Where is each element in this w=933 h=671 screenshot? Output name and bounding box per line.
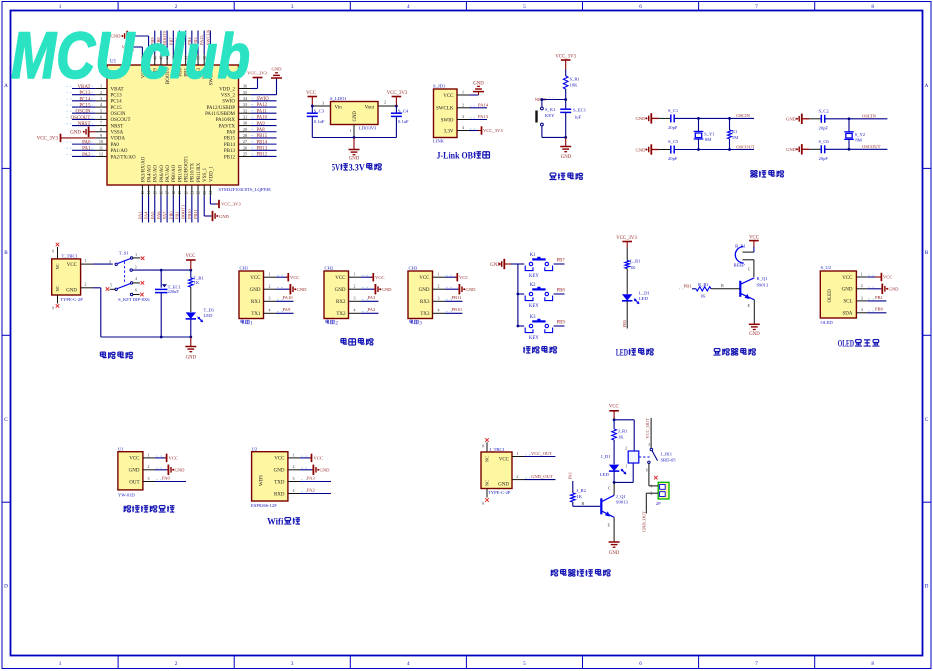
- svg-text:Wifi: Wifi: [267, 517, 284, 528]
- mask dashes: [301, 467, 303, 469]
- wire: [572, 502, 574, 506]
- wire: [525, 456, 556, 458]
- svg-text:VCC: VCC: [459, 275, 468, 280]
- mask dashes: [526, 477, 527, 479]
- svg-text:4: 4: [269, 308, 271, 313]
- wire: [72, 149, 95, 151]
- wire CH3 pin 2: [433, 288, 446, 290]
- svg-text:SWCLK: SWCLK: [436, 107, 454, 112]
- svg-text:TX2: TX2: [336, 312, 346, 317]
- svg-text:1: 1: [135, 253, 137, 257]
- mask dashes: [868, 310, 870, 312]
- svg-text:1: 1: [85, 258, 87, 263]
- wire: [674, 149, 754, 151]
- svg-text:VCC: VCC: [306, 91, 316, 96]
- svg-text:6: 6: [135, 289, 137, 293]
- svg-text:PA12/USBDP: PA12/USBDP: [207, 106, 236, 111]
- svg-text:OSCOUT: OSCOUT: [70, 116, 90, 121]
- wire: [848, 140, 850, 150]
- svg-text:5: 5: [523, 4, 526, 10]
- capacitor S_C5 20pF: [659, 149, 671, 151]
- svg-text:VCC_3V3: VCC_3V3: [37, 137, 59, 142]
- title liquid level module: [124, 506, 131, 512]
- svg-text:PB5: PB5: [622, 319, 627, 327]
- wire LDO bottom rail: [312, 137, 396, 139]
- wire: [470, 107, 488, 109]
- svg-text:GND: GND: [842, 288, 853, 293]
- svg-text:GND: GND: [129, 469, 140, 474]
- wire ESP8266 pin 2: [288, 469, 300, 471]
- wire: [613, 471, 615, 482]
- wire: [72, 155, 95, 157]
- wire: [155, 481, 186, 483]
- svg-text:VCC_OUT: VCC_OUT: [531, 451, 552, 456]
- wire CH1 pin 4: [264, 312, 277, 314]
- wire: [395, 116, 397, 137]
- svg-text:A: A: [4, 83, 8, 89]
- svg-text:7: 7: [100, 121, 102, 126]
- junction: [517, 325, 520, 328]
- wire: [251, 125, 277, 127]
- wire: [197, 31, 199, 55]
- svg-text:OSCIN: OSCIN: [736, 113, 750, 118]
- wire: [511, 263, 518, 265]
- wire: [93, 287, 101, 289]
- svg-text:GND: GND: [320, 468, 331, 473]
- svg-text:PA4/AO: PA4/AO: [147, 165, 152, 182]
- svg-text:NC: NC: [55, 285, 60, 291]
- capacitor S_C1 20pF: [659, 117, 671, 119]
- wire CH2 pin 3: [349, 300, 362, 302]
- mask dashes: [252, 122, 254, 124]
- svg-text:PB2/BOOT1: PB2/BOOT1: [185, 155, 190, 182]
- junction: [613, 418, 616, 421]
- svg-text:PC15: PC15: [79, 103, 91, 108]
- wire: [573, 505, 600, 507]
- svg-text:D: D: [4, 584, 8, 590]
- svg-text:VSS_2: VSS_2: [221, 93, 236, 98]
- svg-text:TX3: TX3: [420, 312, 430, 317]
- wire: [160, 293, 162, 337]
- svg-text:PA2: PA2: [307, 487, 315, 492]
- wire: [445, 300, 463, 302]
- wire LDO gnd pin: [353, 125, 355, 138]
- svg-text:VDD_1: VDD_1: [209, 166, 214, 182]
- svg-text:PB13: PB13: [257, 147, 268, 152]
- svg-text:6: 6: [639, 4, 642, 10]
- svg-text:VCC: VCC: [314, 456, 323, 461]
- MCUclub logo: [11, 18, 136, 92]
- svg-text:PA0: PA0: [82, 141, 91, 146]
- mask dashes: [252, 128, 254, 130]
- title crystal circuit: [750, 171, 757, 178]
- svg-text:PA11/USBDM: PA11/USBDM: [205, 112, 235, 117]
- svg-text:VCC: VCC: [842, 276, 853, 281]
- svg-text:VDDA: VDDA: [111, 137, 126, 142]
- label serial port 2: [326, 320, 329, 323]
- svg-text:5: 5: [100, 108, 102, 113]
- junction: [189, 269, 192, 272]
- svg-text:21: 21: [190, 191, 194, 195]
- wire: [300, 493, 331, 495]
- svg-text:RX1: RX1: [251, 300, 261, 305]
- wire: [197, 196, 199, 223]
- mask dashes: [277, 286, 279, 288]
- relay switch contact: [639, 456, 651, 458]
- svg-text:K1: K1: [530, 253, 536, 258]
- svg-text:KEY: KEY: [529, 274, 539, 279]
- wire CH3 pin 1: [433, 276, 446, 278]
- wire: [525, 479, 556, 481]
- wire J-Link pin 3: [457, 119, 470, 121]
- svg-text:PA3: PA3: [368, 295, 376, 300]
- wire: [554, 293, 565, 295]
- svg-text:9: 9: [100, 133, 102, 138]
- U1 pin stubs right: [239, 88, 252, 90]
- svg-text:GND: GND: [609, 551, 620, 556]
- wire: [190, 319, 192, 337]
- svg-text:J_Q1: J_Q1: [616, 494, 626, 499]
- wire: [148, 36, 150, 55]
- mask dashes: [252, 134, 254, 136]
- wire: [300, 469, 312, 471]
- wire: [257, 78, 259, 89]
- svg-text:BOOT1: BOOT1: [181, 205, 186, 219]
- svg-text:GND: GND: [272, 67, 283, 72]
- svg-text:GND: GND: [498, 482, 509, 487]
- wire: [554, 263, 565, 265]
- wire: [251, 143, 277, 145]
- svg-text:T_S1: T_S1: [119, 250, 130, 255]
- mask dashes: [156, 479, 158, 481]
- svg-text:4: 4: [462, 125, 464, 130]
- junction: [311, 105, 314, 108]
- wire: [251, 131, 277, 133]
- LED T_D1: [190, 287, 192, 312]
- mask dashes: [92, 92, 93, 94]
- svg-text:YW-01D: YW-01D: [118, 493, 136, 498]
- wire: [72, 88, 95, 90]
- svg-text:VCC: VCC: [185, 254, 195, 259]
- svg-text:2: 2: [354, 284, 356, 289]
- svg-text:GND: GND: [382, 287, 393, 292]
- svg-text:B: B: [721, 283, 724, 288]
- wire: [72, 118, 95, 120]
- wire emitter down: [753, 300, 755, 323]
- svg-text:PB1: PB1: [875, 295, 884, 300]
- svg-text:VCC_3V3: VCC_3V3: [221, 202, 241, 207]
- mask dashes: [277, 299, 279, 301]
- svg-text:Vin: Vin: [335, 106, 343, 111]
- svg-text:PC15: PC15: [111, 106, 123, 111]
- svg-text:K2: K2: [530, 283, 536, 288]
- wire: [190, 270, 192, 278]
- svg-text:A: A: [925, 83, 929, 89]
- svg-text:PA1: PA1: [82, 147, 91, 152]
- svg-text:29: 29: [243, 127, 247, 132]
- wire: [251, 112, 277, 114]
- svg-text:S_KFT DIP-8X6: S_KFT DIP-8X6: [118, 297, 150, 302]
- svg-text:3: 3: [354, 296, 356, 301]
- svg-text:6: 6: [639, 661, 642, 667]
- wire: [361, 300, 379, 302]
- wire ESP8266 pin 3: [288, 481, 300, 483]
- wire: [825, 118, 888, 120]
- wire: [867, 300, 886, 302]
- op-amp U1 STM32F103C8T6 MCU body: [107, 65, 239, 185]
- mask dashes: [92, 141, 93, 143]
- wire YW-01D pin 2: [143, 469, 155, 471]
- wire power bottom rail: [101, 336, 191, 338]
- svg-text:17: 17: [166, 191, 170, 195]
- svg-text:1: 1: [59, 661, 62, 667]
- svg-text:VSSA: VSSA: [111, 131, 124, 136]
- svg-text:PA2: PA2: [82, 153, 91, 158]
- svg-text:OLED: OLED: [821, 320, 834, 325]
- svg-text:NC: NC: [55, 263, 60, 269]
- svg-text:2: 2: [175, 4, 178, 10]
- svg-text:PB0: PB0: [168, 211, 173, 219]
- wire: [166, 196, 168, 223]
- wire: [614, 481, 633, 483]
- mask dashes: [446, 274, 448, 276]
- svg-text:VCC_3V3: VCC_3V3: [387, 91, 408, 96]
- svg-text:PB1/AO: PB1/AO: [178, 164, 183, 182]
- svg-text:PA3: PA3: [307, 475, 315, 480]
- wire CH1 pin 2: [264, 288, 277, 290]
- svg-text:3: 3: [100, 96, 102, 101]
- svg-text:PB1: PB1: [684, 283, 693, 288]
- junction: [564, 136, 567, 139]
- title reset circuit: [549, 173, 556, 180]
- wire: [72, 100, 95, 102]
- ground at buzzer: [753, 323, 755, 324]
- junction: [189, 336, 192, 339]
- mask dashes: [67, 86, 68, 88]
- wire: [210, 203, 218, 205]
- svg-text:8: 8: [100, 127, 102, 132]
- svg-text:S_K1: S_K1: [545, 107, 556, 112]
- svg-text:PB7: PB7: [557, 259, 566, 264]
- mask dashes: [470, 117, 471, 119]
- wire: [276, 79, 278, 95]
- svg-text:S_LDO1: S_LDO1: [330, 96, 347, 101]
- svg-text:R_R1: R_R1: [698, 282, 709, 287]
- wire: [445, 276, 456, 278]
- svg-text:GND: GND: [419, 288, 430, 293]
- svg-text:S_Y2: S_Y2: [855, 132, 866, 137]
- mask dashes: [252, 147, 254, 149]
- wire: [518, 293, 524, 295]
- svg-text:CH2: CH2: [325, 265, 334, 270]
- svg-text:PA9: PA9: [257, 122, 266, 127]
- mask dashes: [92, 98, 93, 100]
- svg-text:8M: 8M: [855, 138, 861, 143]
- svg-text:3: 3: [148, 476, 150, 481]
- mask dashes: [549, 97, 550, 99]
- ground at reset: [565, 137, 567, 146]
- svg-text:2: 2: [293, 464, 295, 469]
- svg-text:PB10: PB10: [452, 307, 463, 312]
- svg-text:R1: R1: [732, 129, 738, 134]
- wire: [251, 94, 277, 96]
- wire: [300, 481, 331, 483]
- svg-text:B: B: [925, 250, 929, 256]
- svg-text:NRST: NRST: [111, 124, 124, 129]
- svg-text:4: 4: [293, 488, 295, 493]
- title serial circuit: [341, 338, 347, 344]
- wire: [133, 269, 191, 271]
- wire: [541, 100, 543, 108]
- svg-text:VCC_OUT: VCC_OUT: [645, 418, 650, 439]
- svg-text:1uF: 1uF: [574, 115, 582, 120]
- wire: [160, 31, 162, 55]
- svg-text:GND: GND: [473, 81, 484, 86]
- wire: [251, 155, 277, 157]
- svg-text:8: 8: [482, 445, 484, 449]
- svg-text:9: 9: [482, 502, 484, 506]
- svg-text:BEEP: BEEP: [734, 262, 746, 267]
- mask dashes: [252, 141, 254, 143]
- mask dashes: [67, 110, 68, 112]
- svg-text:8M: 8M: [705, 137, 711, 142]
- svg-text:CH1: CH1: [240, 265, 249, 270]
- svg-text:PB8: PB8: [557, 289, 566, 294]
- svg-text:KEY: KEY: [529, 336, 539, 341]
- mask dashes: [277, 311, 279, 313]
- svg-text:U2: U2: [252, 447, 258, 452]
- svg-text:GND: GND: [466, 287, 477, 292]
- svg-text:1K: 1K: [577, 494, 583, 499]
- wire: [191, 196, 193, 223]
- svg-text:GND_OUT: GND_OUT: [531, 474, 553, 479]
- svg-text:L_D1: L_D1: [639, 290, 650, 295]
- wire: [470, 119, 488, 121]
- svg-text:PB14: PB14: [257, 140, 268, 145]
- svg-text:23: 23: [203, 191, 207, 195]
- svg-text:LED: LED: [600, 472, 610, 477]
- svg-text:3: 3: [291, 4, 294, 10]
- capacitor S_C2 20pF: [809, 118, 821, 120]
- junction: [848, 148, 851, 151]
- svg-text:Vout: Vout: [365, 106, 375, 111]
- svg-text:J_R1: J_R1: [618, 429, 628, 434]
- svg-text:PA8: PA8: [257, 128, 266, 133]
- svg-text:S_U2: S_U2: [821, 265, 832, 270]
- svg-text:C: C: [748, 267, 751, 272]
- mask dashes: [67, 92, 68, 94]
- svg-text:SCL: SCL: [843, 300, 852, 305]
- svg-text:PB11/RX: PB11/RX: [197, 162, 202, 182]
- wire OLED pin 3: [856, 300, 867, 302]
- svg-text:1: 1: [517, 451, 519, 456]
- svg-text:S_JD1: S_JD1: [433, 83, 446, 88]
- svg-text:TX1: TX1: [251, 312, 261, 317]
- wire ESP8266 pin 4: [288, 493, 300, 495]
- mask dashes: [92, 86, 93, 88]
- wire: [172, 31, 174, 55]
- svg-text:GND: GND: [70, 131, 81, 136]
- mask dashes: [362, 311, 364, 313]
- svg-text:8: 8: [871, 661, 874, 667]
- svg-text:3: 3: [438, 296, 440, 301]
- svg-text:3: 3: [648, 443, 650, 447]
- svg-text:PA12: PA12: [257, 103, 268, 108]
- svg-text:TYPE-C-2P: TYPE-C-2P: [488, 490, 511, 495]
- svg-text:NRST: NRST: [78, 122, 91, 127]
- wire: [542, 136, 566, 138]
- svg-text:1K: 1K: [630, 265, 636, 270]
- ground at power circuit: [190, 337, 192, 347]
- svg-text:J_TBC1: J_TBC1: [490, 447, 506, 452]
- svg-text:VCC: VCC: [419, 276, 430, 281]
- svg-text:33: 33: [243, 102, 247, 107]
- wire: [361, 312, 379, 314]
- svg-text:PB11: PB11: [193, 209, 198, 219]
- svg-text:C: C: [4, 417, 8, 423]
- wire relay common down: [648, 464, 650, 486]
- wire: [867, 312, 886, 314]
- U1 pin stubs top: [141, 55, 143, 66]
- svg-text:OSCIN: OSCIN: [862, 114, 876, 119]
- svg-text:2: 2: [85, 282, 87, 287]
- svg-text:VCC: VCC: [443, 94, 454, 99]
- wire: [251, 88, 258, 90]
- wire: [729, 139, 731, 150]
- svg-text:PB15: PB15: [224, 137, 236, 142]
- wire J-Link pin 4: [457, 130, 470, 132]
- transistor J_Q1 S9013: [600, 498, 602, 514]
- mask dashes: [301, 479, 303, 481]
- svg-text:OLED: OLED: [828, 289, 833, 303]
- U1 pin stubs left: [95, 88, 107, 90]
- wire: [185, 196, 187, 223]
- svg-text:25: 25: [243, 152, 247, 157]
- title relay control circuit: [551, 570, 558, 576]
- svg-text:VCC: VCC: [375, 275, 384, 280]
- svg-text:B: B: [4, 250, 8, 256]
- wire: [542, 99, 566, 101]
- svg-text:OSCOUT: OSCOUT: [862, 144, 881, 149]
- mask dashes: [868, 298, 870, 300]
- resistor S_R1 10K: [563, 76, 568, 89]
- svg-text:PA10: PA10: [283, 295, 294, 300]
- junction: [564, 98, 567, 101]
- connector T_TBC1 TYPE-C-2P: [56, 243, 60, 247]
- wire: [445, 288, 458, 290]
- svg-text:11: 11: [99, 145, 103, 150]
- wire: [251, 137, 277, 139]
- wire: [517, 264, 519, 326]
- svg-text:GND_OUT: GND_OUT: [642, 511, 647, 532]
- svg-text:14: 14: [147, 191, 151, 195]
- svg-text:VCC: VCC: [499, 457, 510, 462]
- junction: [160, 336, 163, 339]
- title key circuit: [523, 347, 530, 353]
- wire: [470, 130, 479, 132]
- svg-text:PA6/AO: PA6/AO: [160, 165, 165, 182]
- svg-text:LED: LED: [204, 313, 214, 318]
- capacitor S_C6 20pF: [809, 148, 821, 150]
- svg-text:32: 32: [243, 108, 247, 113]
- wire: [554, 325, 565, 327]
- svg-text:1: 1: [625, 465, 627, 469]
- svg-text:3: 3: [135, 265, 137, 269]
- junction: [613, 481, 616, 484]
- svg-text:7: 7: [755, 4, 758, 10]
- mask dashes: [252, 104, 254, 106]
- wire: [251, 118, 277, 120]
